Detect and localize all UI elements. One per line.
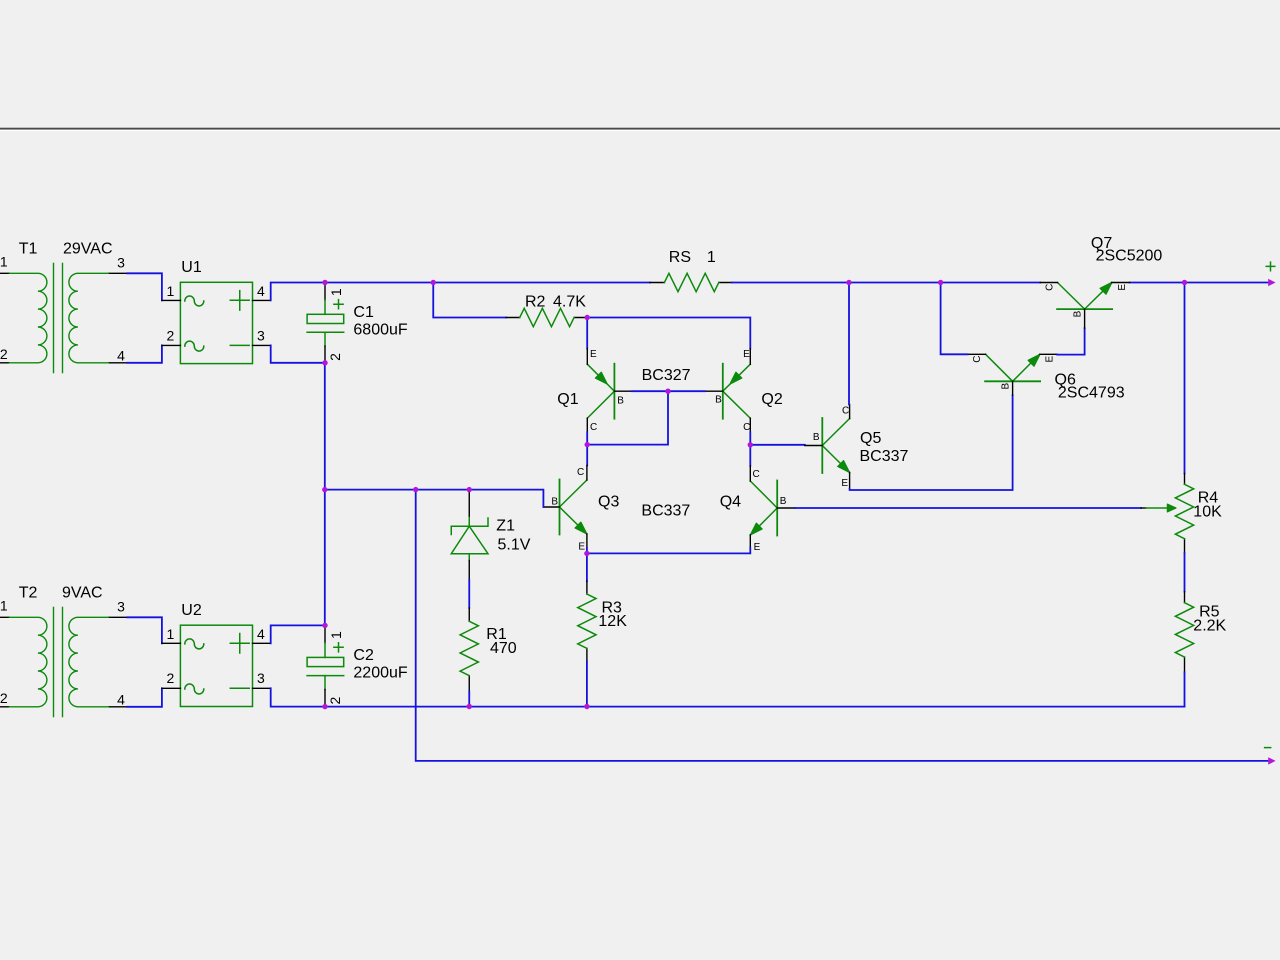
svg-text:E: E [743, 349, 750, 360]
wire R3 to bottom rail [586, 661, 588, 706]
svg-text:2SC5200: 2SC5200 [1096, 248, 1163, 265]
svg-text:BC327: BC327 [642, 367, 691, 384]
svg-text:2: 2 [167, 670, 175, 686]
transistor Q2 [705, 349, 783, 433]
svg-text:C: C [1045, 284, 1056, 291]
wire T2 pin4 to U2 pin2 [127, 688, 162, 707]
svg-text:3: 3 [257, 327, 265, 343]
svg-text:T2: T2 [19, 585, 38, 602]
wire Q3 collector riser [586, 445, 588, 466]
svg-text:C: C [743, 422, 750, 433]
junction Q6 collector rail [938, 280, 943, 285]
svg-text:6800uF: 6800uF [353, 321, 407, 338]
wire U1 pin4 riser + top rail left [271, 283, 650, 301]
svg-text:4: 4 [257, 626, 265, 642]
svg-text:R2: R2 [525, 294, 546, 311]
svg-text:2: 2 [327, 696, 343, 704]
wire top rail mid [732, 282, 1040, 284]
wire Q1 emitter riser [586, 318, 588, 349]
wire collector node to Q5 base [750, 444, 805, 446]
junction mid rail at C bank [322, 487, 327, 492]
wire R2 tap from top rail [433, 283, 506, 318]
wire U2 pin3 to bottom rail [271, 688, 325, 706]
wire bottom rail [325, 706, 1185, 708]
svg-text:BC337: BC337 [860, 448, 909, 465]
svg-text:B: B [1000, 383, 1011, 390]
svg-text:BC337: BC337 [641, 503, 690, 520]
wire mid rail to Q3 base [325, 490, 544, 507]
svg-text:Q1: Q1 [557, 391, 578, 408]
resistor R2 [506, 294, 587, 327]
svg-text:B: B [551, 496, 558, 507]
junction C1 bottom [322, 360, 327, 365]
junction R2 tap [431, 280, 436, 285]
junction C2 top [322, 623, 327, 628]
wire Q1 base to Q2 base [632, 390, 705, 392]
svg-text:E: E [841, 478, 848, 489]
svg-text:4: 4 [117, 347, 125, 363]
svg-text:2: 2 [167, 327, 175, 343]
svg-text:C: C [590, 422, 597, 433]
junction Q3 emitter node [584, 551, 589, 556]
junction R2 output node [585, 315, 590, 320]
bridge rectifier U1 [162, 259, 271, 363]
svg-text:B: B [1072, 310, 1083, 317]
wire R4 riser from top rail [1184, 283, 1186, 474]
svg-text:2.2K: 2.2K [1193, 618, 1226, 635]
svg-text:C: C [753, 469, 760, 480]
svg-text:1: 1 [167, 283, 175, 299]
zener Z1 [451, 490, 530, 580]
svg-text:4: 4 [117, 691, 125, 707]
wire R1 to bottom rail [468, 691, 470, 706]
transistor Q6 [968, 354, 1125, 401]
wire Q4 collector riser [749, 445, 751, 466]
wire Z1 to R1 [468, 580, 470, 608]
svg-text:1: 1 [328, 631, 344, 639]
svg-text:U2: U2 [181, 602, 202, 619]
potentiometer R4 [1141, 474, 1222, 554]
wire top rail to Q6 collector [941, 283, 968, 355]
svg-text:29VAC: 29VAC [63, 241, 113, 258]
svg-text:Q5: Q5 [860, 430, 881, 447]
resistor R5 [1175, 592, 1226, 673]
wire R2 node to Q2 emitter riser [587, 318, 750, 349]
svg-text:1: 1 [0, 597, 8, 613]
wire Q5 collector riser to top rail [848, 283, 850, 405]
wire T2 pin3 to U2 pin1 [127, 617, 162, 643]
transformer T2 [0, 585, 127, 717]
wire Q4 base to R4 wiper [795, 507, 1141, 509]
svg-text:12K: 12K [598, 613, 627, 630]
resistor RS [650, 249, 732, 291]
svg-text:B: B [715, 395, 722, 406]
svg-text:3: 3 [117, 599, 125, 615]
svg-text:1: 1 [328, 288, 344, 296]
svg-text:3: 3 [117, 255, 125, 271]
svg-text:B: B [617, 396, 624, 407]
wire Q3/Q4 emitter rail [587, 548, 750, 553]
svg-text:1: 1 [0, 253, 8, 269]
svg-text:E: E [578, 541, 585, 552]
wire mid rail sense node drop [416, 490, 1272, 761]
svg-text:C2: C2 [353, 647, 374, 664]
svg-text:T1: T1 [19, 241, 38, 258]
svg-text:C: C [842, 405, 849, 416]
svg-text:2: 2 [0, 690, 8, 706]
svg-text:2SC4793: 2SC4793 [1058, 384, 1125, 401]
svg-text:C1: C1 [353, 304, 374, 321]
svg-text:1: 1 [167, 626, 175, 642]
capacitor C2 [307, 627, 408, 705]
svg-text:B: B [813, 432, 820, 443]
junction R3 bottom [584, 704, 589, 709]
transistor Q1 [557, 349, 632, 433]
svg-text:9VAC: 9VAC [62, 585, 103, 602]
svg-text:470: 470 [490, 640, 517, 657]
transistor Q3 [543, 466, 619, 553]
separator line dark [0, 128, 1280, 130]
wire R4 to R5 [1184, 553, 1186, 592]
wire Q1 collector drop [586, 432, 588, 444]
wire Q2 collector drop [749, 432, 751, 444]
junction Q2 collector node [748, 442, 753, 447]
junction C1 top [322, 280, 327, 285]
junction sense tap [413, 487, 418, 492]
svg-text:10K: 10K [1193, 504, 1222, 521]
junction Q5 collector rail [846, 280, 851, 285]
svg-text:5.1V: 5.1V [498, 536, 531, 553]
transistor Q7 [1040, 235, 1162, 328]
svg-text:E: E [1044, 355, 1055, 362]
transistor Q4 [720, 466, 795, 553]
resistor R1 [460, 608, 517, 691]
wire Q5 emitter to Q6 base [850, 395, 1013, 490]
svg-text:E: E [754, 542, 761, 553]
wire Q6 emitter to Q7 base [1057, 328, 1084, 354]
junction Z1 top [467, 487, 472, 492]
wire base node down to Q1 collector node [587, 391, 668, 444]
svg-text:4.7K: 4.7K [553, 294, 586, 311]
svg-text:2: 2 [0, 346, 8, 362]
transistor Q5 [805, 405, 909, 489]
wire U2 pin4 to C2 top [271, 625, 325, 643]
junction R1 bottom [467, 704, 472, 709]
svg-text:C: C [972, 355, 983, 362]
svg-text:Z1: Z1 [496, 517, 515, 534]
svg-text:Q4: Q4 [720, 493, 741, 510]
svg-text:1: 1 [707, 249, 716, 266]
wire mid vertical C1- to C2+ [324, 363, 326, 626]
junction C2 bottom [322, 704, 327, 709]
svg-text:E: E [1117, 284, 1128, 291]
wire Q3 emitter to R3 [586, 548, 588, 581]
junction Q1 collector node [585, 442, 590, 447]
junction R4 top rail [1182, 280, 1187, 285]
svg-text:E: E [590, 349, 597, 360]
capacitor C1 [307, 284, 408, 362]
wire top rail right to + output [1130, 282, 1272, 284]
svg-text:4: 4 [257, 283, 265, 299]
separator line white [0, 130, 1280, 131]
transformer T1 [0, 241, 127, 373]
resistor R3 [578, 581, 627, 661]
wire T1 pin4 to U1 pin2 [127, 345, 162, 362]
+ output terminal [1266, 262, 1275, 286]
svg-text:C: C [577, 467, 584, 478]
svg-text:2: 2 [327, 353, 343, 361]
wire U1 pin3 to C1 bottom [271, 345, 325, 362]
svg-text:Q3: Q3 [598, 493, 619, 510]
bridge rectifier U2 [162, 602, 271, 706]
svg-text:B: B [780, 496, 787, 507]
svg-text:Q2: Q2 [761, 391, 782, 408]
svg-text:RS: RS [669, 249, 691, 266]
svg-text:2200uF: 2200uF [353, 664, 407, 681]
wire R5 to bottom rail corner [1184, 672, 1186, 706]
- output terminal [1265, 748, 1276, 765]
svg-text:U1: U1 [181, 259, 202, 276]
junction Q1/Q2 base node [665, 389, 670, 394]
svg-text:3: 3 [257, 670, 265, 686]
wire T1 pin3 to U1 pin1 [127, 273, 162, 300]
